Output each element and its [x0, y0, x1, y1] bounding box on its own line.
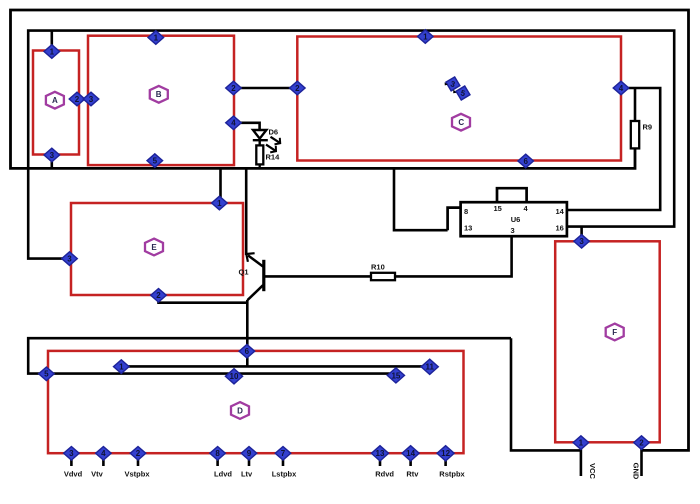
- wire D pin stub Rstpbx: [444, 453, 447, 466]
- svg-text:D: D: [237, 407, 243, 416]
- node D.3: [64, 447, 80, 461]
- wire D pin stub Ldvd: [216, 453, 219, 466]
- svg-text:R14: R14: [266, 153, 281, 162]
- svg-text:1: 1: [154, 33, 159, 42]
- svg-text:2: 2: [156, 291, 161, 300]
- node A.2: [69, 92, 85, 106]
- node D.8: [210, 447, 226, 461]
- hexagon label A: [46, 92, 64, 109]
- node D.2: [130, 447, 146, 461]
- svg-text:Vtv: Vtv: [91, 470, 104, 479]
- svg-text:B: B: [156, 90, 162, 99]
- hexagon label F: [606, 324, 624, 341]
- svg-text:3: 3: [69, 449, 74, 458]
- svg-text:Rstpbx: Rstpbx: [439, 470, 465, 479]
- svg-text:9: 9: [247, 449, 252, 458]
- node C.6: [518, 154, 534, 168]
- node F.3: [574, 235, 590, 249]
- node D.4: [96, 447, 112, 461]
- node B.5: [147, 154, 163, 168]
- hexagon label E: [145, 239, 163, 256]
- wire A.2 to B.3: [79, 98, 88, 101]
- node F.2: [634, 436, 650, 450]
- block F: [555, 241, 660, 442]
- svg-text:F: F: [612, 328, 617, 337]
- node B.2: [226, 81, 242, 95]
- node D.14: [402, 446, 419, 461]
- node D.13: [371, 446, 388, 461]
- svg-text:2: 2: [295, 84, 300, 93]
- node E.2: [151, 289, 167, 303]
- svg-text:Vstpbx: Vstpbx: [124, 470, 150, 479]
- wire tick left of C.3: [445, 82, 448, 85]
- svg-text:8: 8: [215, 449, 220, 458]
- svg-text:Q1: Q1: [239, 268, 249, 277]
- svg-text:1: 1: [579, 439, 584, 448]
- svg-text:16: 16: [556, 224, 564, 233]
- node D.10: [225, 369, 242, 384]
- svg-text:11: 11: [425, 363, 434, 372]
- block B: [88, 36, 234, 165]
- wire A node3 stub: [50, 155, 53, 168]
- svg-text:4: 4: [619, 84, 624, 93]
- node F.1: [573, 436, 589, 450]
- svg-text:6: 6: [245, 347, 250, 356]
- svg-text:4: 4: [231, 119, 236, 128]
- node E.3: [62, 252, 78, 266]
- wire D pin stub Vdvd: [70, 453, 73, 466]
- wire D bus1 (node1 to node11): [122, 365, 430, 368]
- resistor R10: [371, 273, 395, 280]
- wire Q1 collector riser: [245, 168, 248, 255]
- node C.1: [418, 30, 434, 44]
- svg-text:1: 1: [423, 32, 428, 41]
- wire VCC run (from inner left down to D bus2 and over to F.1): [28, 338, 511, 373]
- wire B node5 stub: [154, 161, 157, 168]
- node D.15: [387, 368, 404, 383]
- block C: [297, 37, 621, 161]
- svg-text:3: 3: [50, 151, 55, 160]
- svg-text:1: 1: [217, 199, 222, 208]
- svg-text:15: 15: [494, 204, 502, 213]
- wire GND terminal stub: [640, 443, 643, 476]
- svg-text:5: 5: [44, 370, 49, 379]
- resistor R9: [631, 121, 639, 148]
- wire D pin stub Rdvd: [379, 453, 382, 466]
- block A: [33, 51, 79, 155]
- wire C.4 to U6 pin14: [567, 88, 660, 210]
- wire D pin stub Lstpbx: [282, 453, 285, 466]
- svg-text:Ltv: Ltv: [241, 470, 253, 479]
- svg-text:D6: D6: [269, 128, 279, 137]
- hexagon label B: [150, 86, 168, 103]
- wire R10 to Q1 base: [264, 275, 371, 278]
- node B.4: [226, 116, 242, 130]
- svg-text:R10: R10: [371, 263, 385, 272]
- svg-text:15: 15: [391, 371, 400, 380]
- svg-text:R9: R9: [643, 123, 653, 132]
- svg-text:4: 4: [101, 449, 106, 458]
- svg-text:13: 13: [464, 224, 472, 233]
- svg-text:6: 6: [523, 157, 528, 166]
- svg-text:2: 2: [231, 84, 236, 93]
- node D.5: [39, 367, 55, 381]
- wire C node6 stub: [524, 161, 527, 167]
- wire B node1 stub: [155, 31, 158, 37]
- node D.7: [275, 447, 291, 461]
- diode D6: [253, 130, 268, 145]
- svg-text:Rtv: Rtv: [406, 470, 419, 479]
- svg-text:14: 14: [556, 207, 565, 216]
- node B.3: [83, 92, 99, 106]
- wire R9 top stub: [634, 88, 637, 121]
- node D.6: [239, 344, 255, 358]
- wire pin16 to F.3 stub: [580, 227, 583, 240]
- svg-text:5: 5: [153, 157, 158, 166]
- svg-text:2: 2: [639, 439, 644, 448]
- transistor Q1: [246, 253, 263, 300]
- svg-text:Ldvd: Ldvd: [214, 470, 232, 479]
- node D.1: [114, 360, 130, 374]
- node C.5 (rotated): [454, 84, 471, 101]
- node C.2: [290, 81, 306, 95]
- svg-text:2: 2: [75, 95, 80, 104]
- svg-text:U6: U6: [511, 215, 521, 224]
- svg-text:3: 3: [89, 95, 94, 104]
- LED arrow 1 of D6: [271, 137, 281, 145]
- block E: [71, 203, 243, 295]
- svg-text:1: 1: [50, 47, 55, 56]
- wire emitter junction down to D.6 and bus: [246, 300, 249, 366]
- wire VCC drop to F node1: [511, 338, 581, 450]
- wire B.4 to diode D6: [234, 123, 260, 129]
- node B.1: [148, 31, 164, 45]
- wire D pin stub Vstpbx: [137, 453, 140, 466]
- svg-text:14: 14: [406, 449, 415, 458]
- svg-text:10: 10: [230, 372, 239, 381]
- svg-text:Vdvd: Vdvd: [64, 470, 83, 479]
- node A.1: [44, 45, 60, 59]
- svg-text:E: E: [151, 243, 157, 252]
- svg-text:Rdvd: Rdvd: [375, 470, 394, 479]
- svg-text:3: 3: [579, 237, 584, 246]
- wire U6 pin13 branch: [394, 168, 448, 230]
- hexagon label C: [452, 114, 470, 131]
- node A.3: [44, 148, 60, 162]
- node D.12: [437, 446, 454, 461]
- svg-text:2: 2: [136, 449, 141, 458]
- node C.3 (rotated): [444, 75, 461, 92]
- wire C node1 stub: [424, 31, 427, 37]
- wire tick between C.3 and C.5: [453, 90, 457, 94]
- svg-text:C: C: [458, 118, 464, 127]
- svg-text:VCC: VCC: [588, 463, 597, 479]
- svg-text:1: 1: [119, 363, 124, 372]
- wire E.2 to Q1 emitter junction: [159, 296, 248, 303]
- LED arrow 2 of D6: [266, 145, 276, 153]
- IC U6: [448, 188, 567, 236]
- node D.9: [241, 447, 257, 461]
- resistor R14: [256, 145, 263, 168]
- hexagon label D: [231, 402, 249, 419]
- node E.1: [212, 196, 228, 210]
- wire VCC terminal stub: [580, 443, 583, 476]
- wire D pin stub Rtv: [409, 453, 412, 466]
- svg-text:Lstpbx: Lstpbx: [272, 470, 297, 479]
- svg-text:3: 3: [511, 226, 515, 235]
- wire D pin stub Vtv: [102, 453, 105, 466]
- wire inner top bus (E.3 up, top line, down to U6 pin16): [28, 31, 674, 259]
- wire U6 pin3 to R10: [395, 236, 512, 276]
- wire A node1 stub: [50, 31, 53, 50]
- svg-text:12: 12: [441, 449, 450, 458]
- node C.4: [613, 81, 629, 95]
- wire D pin stub Ltv: [248, 453, 251, 466]
- block D: [48, 351, 464, 453]
- node D.11: [421, 359, 438, 374]
- svg-text:A: A: [52, 96, 58, 105]
- wire B.2 to C.2: [234, 87, 297, 90]
- svg-text:3: 3: [67, 255, 72, 264]
- svg-text:13: 13: [376, 449, 385, 458]
- wire E node1 to top ground line: [219, 168, 222, 202]
- svg-text:8: 8: [464, 207, 468, 216]
- svg-text:GND: GND: [632, 463, 641, 480]
- svg-text:7: 7: [281, 449, 286, 458]
